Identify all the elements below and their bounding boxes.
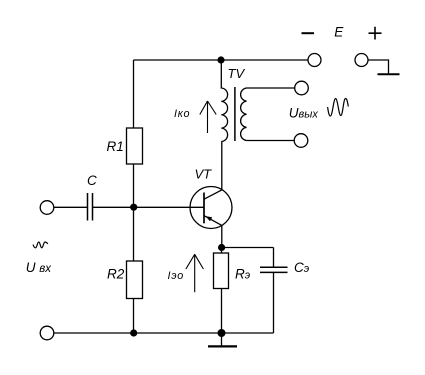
ground E	[378, 73, 400, 75]
wire bottom rail	[54, 332, 274, 334]
transformer TV primary winding	[221, 60, 227, 142]
node base junction	[130, 204, 137, 211]
ground	[208, 333, 237, 346]
transistor VT	[190, 187, 232, 229]
wire emitter	[221, 225, 223, 247]
wire R1 branch top	[133, 60, 135, 128]
wire emitter junction to Ce branch	[222, 247, 274, 249]
svg-text:Uвых: Uвых	[289, 105, 319, 120]
node bottom Re junction	[218, 329, 226, 337]
capacitor Ce	[260, 267, 288, 272]
terminal secondary lower	[294, 134, 308, 148]
terminal secondary upper	[295, 81, 309, 95]
wire Ce top	[273, 248, 275, 268]
transformer core	[234, 87, 236, 141]
svg-text:Iэо: Iэо	[168, 270, 184, 282]
wire emitter junction to Re	[221, 248, 223, 254]
svg-text:U вх: U вх	[26, 260, 53, 275]
svg-text:C: C	[87, 173, 97, 188]
svg-text:TV: TV	[228, 66, 246, 81]
terminal input	[40, 201, 54, 215]
svg-text:Iко: Iко	[174, 108, 190, 120]
resistor R1	[127, 128, 143, 164]
wire collector	[221, 142, 223, 191]
input sine symbol	[33, 242, 48, 248]
svg-text:E: E	[334, 24, 344, 39]
label minus sign	[302, 32, 315, 34]
svg-text:Cэ: Cэ	[294, 260, 310, 275]
current arrow Iko	[200, 101, 216, 133]
wire plus terminal to ground E	[368, 60, 389, 74]
terminal plus E	[355, 54, 368, 67]
label plus sign	[369, 27, 382, 40]
current arrow Ieo	[186, 254, 204, 292]
output sine symbol	[328, 99, 349, 117]
resistor Re	[214, 253, 229, 289]
node bottom left junction	[130, 329, 137, 336]
node junction top rail / TV primary	[217, 56, 224, 63]
svg-text:Rэ: Rэ	[235, 266, 251, 281]
capacitor C	[88, 193, 93, 221]
node emitter junction	[218, 244, 225, 251]
wire R2 to bottom rail	[133, 299, 135, 334]
svg-text:R1: R1	[107, 139, 124, 154]
wire base	[134, 206, 205, 208]
terminal bottom left	[40, 326, 54, 340]
wire C to base node	[93, 206, 134, 208]
wire R1 to base node	[133, 164, 135, 207]
svg-text:R2: R2	[107, 266, 125, 281]
wire Re to bottom rail	[221, 289, 223, 334]
svg-text:VT: VT	[195, 167, 213, 182]
terminal minus E	[308, 54, 321, 67]
wire Ce bottom	[273, 272, 275, 333]
wire base node to R2	[133, 207, 135, 261]
wire top rail	[134, 59, 309, 61]
wire input terminal to C	[54, 206, 88, 208]
transformer TV secondary winding	[241, 88, 295, 141]
resistor R2	[127, 261, 143, 299]
